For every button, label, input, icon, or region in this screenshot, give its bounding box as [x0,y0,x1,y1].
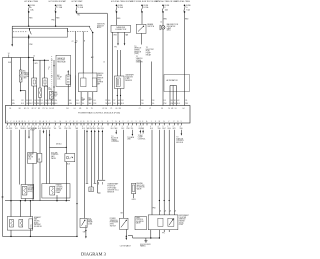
svg-text:Z: Z [70,121,71,123]
svg-text:PPL: PPL [114,46,117,48]
svg-text:ENGINE: ENGINE [179,221,185,223]
svg-text:BLK: BLK [121,213,124,215]
svg-text:(VSS): (VSS) [97,79,102,81]
svg-text:COIL: COIL [39,158,41,161]
svg-text:3: 3 [27,126,28,128]
svg-text:MODULE: MODULE [176,142,183,144]
svg-text:OXYGEN: OXYGEN [28,187,35,189]
svg-text:274: 274 [121,100,124,102]
svg-text:(HO2S): (HO2S) [56,190,62,192]
svg-text:B: B [84,41,85,43]
svg-text:C2: C2 [139,108,141,110]
svg-text:DUCER: DUCER [23,76,29,78]
svg-text:K2: K2 [103,108,105,110]
svg-text:CONTROL: CONTROL [136,219,144,221]
svg-text:G103: G103 [132,199,136,201]
svg-text:4: 4 [48,126,49,128]
svg-text:1: 1 [54,126,55,128]
svg-text:PPL: PPL [162,232,165,234]
svg-text:7: 7 [139,126,140,128]
svg-text:G101 (LH KICK: G101 (LH KICK [140,244,151,246]
svg-text:POWER: POWER [110,218,117,220]
svg-text:238: 238 [152,100,155,102]
svg-text:P1: P1 [111,108,113,110]
svg-text:131: 131 [164,100,167,102]
svg-text:M5: M5 [79,108,81,110]
svg-text:Y: Y [123,121,124,123]
svg-text:141: 141 [93,100,96,102]
svg-text:CONTROL: CONTROL [138,138,146,140]
svg-text:412: 412 [177,100,180,102]
svg-text:BOOSTER: BOOSTER [57,60,65,62]
svg-text:INSTRUMENT: INSTRUMENT [179,215,189,217]
svg-text:SOLENOID: SOLENOID [34,226,43,228]
svg-text:PNK: PNK [9,128,12,130]
svg-text:4: 4 [93,126,94,128]
svg-text:F: F [132,121,133,123]
svg-text:5: 5 [69,126,70,128]
svg-text:YEL: YEL [59,128,62,130]
svg-text:U: U [55,121,56,123]
svg-text:BLU: BLU [150,128,153,130]
svg-text:B9: B9 [38,108,40,110]
svg-text:SPEED: SPEED [136,60,142,62]
svg-text:1: 1 [45,126,46,128]
svg-text:POSITION: POSITION [125,76,133,78]
svg-text:YEL: YEL [131,128,134,130]
svg-text:PRESS: PRESS [23,72,28,74]
svg-text:U: U [80,121,81,123]
svg-text:S: S [83,121,84,123]
svg-text:125: 125 [41,100,44,102]
svg-text:4: 4 [65,126,66,128]
svg-text:(EGR): (EGR) [34,222,39,224]
svg-text:9: 9 [42,126,43,128]
svg-text:GRY: GRY [34,63,37,65]
svg-text:X8: X8 [161,108,163,110]
svg-text:BLK: BLK [67,164,70,166]
svg-text:GRY: GRY [41,103,44,105]
svg-text:1: 1 [122,126,123,128]
svg-text:(PSP): (PSP) [110,223,115,225]
svg-text:7: 7 [86,126,87,128]
svg-text:H: H [98,121,99,123]
svg-text:396: 396 [141,100,144,102]
svg-text:388: 388 [69,100,72,102]
svg-text:2: 2 [173,126,174,128]
svg-text:PRESSURE: PRESSURE [110,222,118,224]
svg-text:M1: M1 [19,108,21,110]
svg-text:T: T [112,121,113,123]
svg-text:COIL: COIL [57,78,61,80]
svg-text:GRN: GRN [48,89,51,91]
svg-text:STEERING: STEERING [110,220,119,222]
svg-text:YEL: YEL [82,103,85,105]
svg-text:1: 1 [75,126,76,128]
svg-text:9: 9 [31,126,32,128]
svg-text:111: 111 [174,100,176,102]
svg-text:Y6: Y6 [168,108,170,110]
svg-text:WHT: WHT [76,103,79,105]
svg-text:SENSOR: SENSOR [125,80,133,82]
svg-text:(HO2S): (HO2S) [28,191,34,193]
svg-text:WHT: WHT [29,103,32,105]
svg-text:Z: Z [168,121,169,123]
svg-text:M3: M3 [171,108,173,110]
svg-text:6: 6 [59,126,60,128]
svg-text:376: 376 [48,100,51,102]
svg-text:BLK: BLK [38,128,41,130]
svg-text:U2: U2 [52,108,54,110]
svg-text:SOL: SOL [28,158,31,160]
svg-text:7: 7 [34,126,35,128]
svg-text:DIAGRAM 3: DIAGRAM 3 [81,252,107,257]
svg-text:BLU: BLU [23,128,26,130]
svg-text:W4: W4 [66,108,68,110]
svg-text:E4: E4 [183,108,185,110]
svg-text:177: 177 [113,100,116,102]
svg-text:PNK: PNK [127,128,130,130]
svg-text:SHUT-OFF: SHUT-OFF [137,185,145,187]
svg-text:YEL: YEL [77,14,80,16]
svg-text:V5: V5 [46,108,48,110]
svg-text:14: 14 [160,21,162,23]
svg-text:CONNECTOR: CONNECTOR [115,29,127,31]
svg-text:GRY: GRY [83,232,86,234]
svg-text:BLU: BLU [93,128,96,130]
svg-text:VEHICLE: VEHICLE [97,73,104,75]
svg-text:S: S [155,121,156,123]
svg-text:IGNITION: IGNITION [176,138,184,140]
svg-text:PNK: PNK [153,208,156,210]
svg-text:YEL: YEL [15,128,18,130]
svg-text:3: 3 [21,126,22,128]
svg-text:SPEED: SPEED [134,50,140,52]
svg-text:322: 322 [29,100,32,102]
svg-text:BLU: BLU [82,128,85,130]
svg-text:YEL: YEL [68,128,71,130]
svg-text:SOLENOID: SOLENOID [136,221,145,223]
svg-text:BLK: BLK [48,103,51,105]
svg-text:354: 354 [76,100,79,102]
svg-text:160: 160 [108,100,111,102]
svg-text:PUMP: PUMP [146,53,151,55]
svg-text:PNK: PNK [185,103,188,105]
svg-text:DK BLU: DK BLU [56,143,62,145]
svg-text:PRIME: PRIME [88,222,93,224]
svg-text:P: P [174,121,175,123]
svg-text:CONN: CONN [88,223,92,225]
svg-text:CONTROL: CONTROL [51,154,59,156]
svg-text:(MIL): (MIL) [167,30,171,32]
svg-text:H: H [7,121,8,123]
svg-text:W8: W8 [119,108,121,110]
svg-text:YEL: YEL [54,128,57,130]
svg-text:265: 265 [12,100,15,102]
svg-text:POWERTRAIN CONTROL MODULE (PCM: POWERTRAIN CONTROL MODULE (PCM) [78,112,120,115]
svg-text:X: X [28,121,29,123]
svg-text:CLUSTER: CLUSTER [179,217,187,219]
svg-text:SPEED: SPEED [97,75,103,77]
svg-text:SHIFT: SHIFT [136,217,140,219]
svg-text:227: 227 [88,100,91,102]
svg-text:214: 214 [37,100,40,102]
svg-text:4: 4 [150,126,151,128]
svg-text:ALTERNATOR: ALTERNATOR [167,79,179,82]
svg-text:14: 14 [33,56,35,58]
svg-text:S: S [73,121,74,123]
svg-text:290: 290 [55,100,58,102]
svg-text:U: U [13,121,14,123]
svg-text:T8: T8 [91,108,93,110]
svg-text:RECIRC: RECIRC [34,221,41,223]
svg-text:SOON: SOON [179,222,184,224]
svg-text:FUEL: FUEL [88,218,92,220]
svg-text:GRY: GRY [172,128,175,130]
svg-text:BLU: BLU [121,103,124,105]
svg-text:F6: F6 [105,108,107,110]
svg-text:N: N [87,121,88,123]
svg-text:SENSOR: SENSOR [134,51,142,53]
svg-text:RLY: RLY [54,95,57,97]
svg-text:LIGHT: LIGHT [179,224,184,226]
svg-text:CONTROL: CONTROL [176,140,184,142]
svg-text:SENSOR: SENSOR [56,188,63,190]
svg-text:SENSOR: SENSOR [136,62,144,64]
svg-text:BLK: BLK [177,103,180,105]
svg-text:H: H [60,121,61,123]
svg-text:(CMP): (CMP) [125,78,130,80]
svg-text:PUMP: PUMP [30,130,35,132]
svg-text:C2: C2 [72,41,74,43]
svg-text:N1: N1 [9,108,11,110]
svg-text:P3: P3 [43,108,45,110]
svg-text:E: E [16,121,17,123]
svg-text:OXYGEN: OXYGEN [56,187,63,189]
svg-text:CONTROL: CONTROL [111,141,119,143]
svg-text:C4: C4 [27,108,29,110]
svg-text:137: 137 [21,100,24,102]
svg-text:N: N [115,121,116,123]
svg-text:BLK: BLK [121,128,124,130]
svg-text:WHT: WHT [108,103,111,105]
svg-text:X: X [102,121,103,123]
svg-text:BLU: BLU [111,128,114,130]
svg-text:S: S [24,121,25,123]
svg-text:8: 8 [82,126,83,128]
svg-text:S1: S1 [175,108,177,110]
svg-text:BLK: BLK [8,62,11,64]
svg-text:YEL: YEL [152,103,155,105]
svg-text:PNK: PNK [51,20,54,22]
svg-text:X: X [91,121,92,123]
svg-text:Z4: Z4 [86,108,88,110]
svg-text:Z2: Z2 [149,108,151,110]
svg-text:14: 14 [8,53,10,55]
svg-text:B2: B2 [32,108,34,110]
svg-text:U: U [76,121,77,123]
svg-text:N: N [177,121,178,123]
svg-text:SENSOR: SENSOR [28,189,35,191]
svg-text:PUMP: PUMP [88,220,92,222]
svg-text:3: 3 [38,126,39,128]
svg-text:B2: B2 [24,108,26,110]
svg-text:SENSOR: SENSOR [97,77,104,79]
svg-text:COIL: COIL [30,224,32,227]
svg-text:(VSS): (VSS) [134,53,139,55]
svg-text:BUFFER: BUFFER [97,82,104,84]
svg-text:15: 15 [103,62,105,64]
svg-text:S: S [46,121,47,123]
svg-text:POSITION: POSITION [107,186,116,188]
svg-text:SWITCH: SWITCH [110,225,116,227]
svg-text:SOLENOID: SOLENOID [137,187,146,189]
svg-text:SERVICE: SERVICE [179,219,186,221]
svg-text:YEL: YEL [113,103,116,105]
svg-text:399: 399 [82,100,85,102]
svg-text:SWITCH: SWITCH [147,26,154,28]
svg-text:211: 211 [185,100,188,102]
svg-text:TO FUEL: TO FUEL [30,128,37,130]
svg-text:PNK: PNK [164,103,167,105]
svg-text:E: E [107,121,108,123]
svg-text:YEL: YEL [141,103,144,105]
svg-text:MTR: MTR [54,94,57,96]
svg-text:PNK: PNK [29,44,32,46]
svg-text:8: 8 [9,126,10,128]
svg-text:PNK: PNK [93,103,96,105]
svg-text:K: K [142,121,143,123]
svg-text:B: B [140,121,141,123]
svg-text:ELECTRIC: ELECTRIC [146,49,155,51]
svg-text:N: N [163,121,164,123]
svg-text:L8: L8 [74,108,76,110]
svg-text:PNK: PNK [64,128,67,130]
svg-text:PNK: PNK [48,128,51,130]
svg-text:VEHICLE: VEHICLE [134,48,142,50]
svg-text:FUEL: FUEL [146,51,150,53]
svg-text:U6: U6 [115,108,117,110]
svg-text:COMP: COMP [138,137,143,139]
svg-text:BLK: BLK [21,103,24,105]
svg-text:V7: V7 [35,108,37,110]
svg-text:E: E [94,121,95,123]
svg-text:CENTER TDC): CENTER TDC) [107,189,119,191]
svg-text:ENGINE: ENGINE [137,183,143,185]
svg-text:BLK: BLK [55,103,58,105]
svg-text:VEHICLE: VEHICLE [136,58,143,60]
svg-text:SENSOR: SENSOR [107,191,115,193]
